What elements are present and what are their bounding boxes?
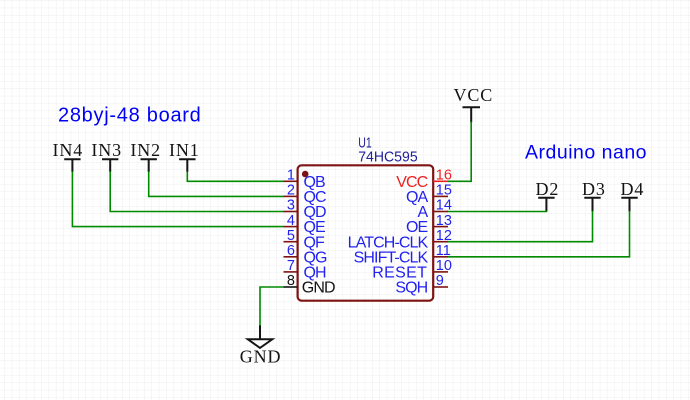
svg-text:2: 2: [287, 183, 295, 199]
svg-text:7: 7: [287, 258, 295, 274]
svg-text:IN1: IN1: [169, 140, 200, 160]
pin 6 QG: [284, 243, 328, 266]
svg-text:GND: GND: [302, 280, 335, 297]
pin 9 SQH: [395, 273, 448, 296]
svg-text:16: 16: [436, 168, 452, 184]
svg-text:9: 9: [436, 273, 444, 289]
wire IN1 to pin 1: [187, 171, 283, 181]
pin 11 SHIFT-CLK: [354, 243, 451, 266]
pin 15 QA: [406, 183, 452, 206]
power VCC: [454, 85, 494, 123]
wire IN3 to pin 3: [110, 171, 283, 211]
wire IN4 to pin 4: [72, 171, 283, 226]
node D3: [582, 179, 606, 212]
pin 4 QE: [284, 213, 326, 236]
svg-text:IN4: IN4: [53, 140, 84, 160]
pin 12 LATCH-CLK: [348, 228, 452, 251]
svg-text:28byj-48 board: 28byj-48 board: [58, 105, 202, 127]
svg-text:D4: D4: [621, 179, 645, 199]
node IN2: [130, 140, 161, 172]
svg-text:11: 11: [436, 243, 451, 259]
svg-text:8: 8: [287, 273, 295, 289]
wire pin 8 to GND: [260, 287, 284, 326]
pin 10 RESET: [372, 258, 452, 281]
svg-text:5: 5: [287, 228, 295, 244]
svg-text:GND: GND: [240, 347, 282, 367]
svg-text:SQH: SQH: [395, 280, 427, 297]
pin 1 QB: [284, 168, 326, 191]
node IN1: [169, 140, 200, 172]
wire D2 to pin 14: [448, 210, 547, 213]
svg-text:15: 15: [436, 183, 452, 199]
svg-text:6: 6: [287, 243, 295, 259]
svg-text:IN2: IN2: [130, 140, 161, 160]
svg-text:12: 12: [436, 228, 452, 244]
svg-text:10: 10: [436, 258, 452, 274]
svg-text:1: 1: [287, 168, 295, 184]
pin 5 QF: [284, 228, 326, 251]
node IN4: [53, 140, 84, 172]
pin 14 A: [418, 198, 452, 221]
pin 1 marker dot: [302, 171, 309, 178]
svg-text:VCC: VCC: [454, 85, 494, 105]
svg-text:D3: D3: [582, 179, 606, 199]
svg-text:D2: D2: [536, 179, 560, 199]
pin 8 GND: [284, 273, 336, 296]
svg-text:Arduino nano: Arduino nano: [525, 142, 647, 164]
wire D3 to pin 12: [448, 211, 593, 242]
pin 3 QD: [284, 198, 327, 221]
svg-text:3: 3: [287, 198, 295, 214]
node IN3: [91, 140, 122, 172]
svg-text:IN3: IN3: [91, 140, 122, 160]
svg-text:4: 4: [287, 213, 295, 229]
ground GND: [240, 325, 282, 367]
wire IN2 to pin 2: [149, 171, 284, 196]
IC U1 74HC595 body: [298, 165, 434, 300]
svg-text:74HC595: 74HC595: [358, 149, 418, 166]
wire VCC to pin 16: [448, 122, 471, 182]
pin 13 OE: [406, 213, 452, 236]
wire D4 to pin 11: [448, 211, 630, 257]
pin 16 VCC: [396, 168, 452, 191]
node D4: [621, 179, 645, 212]
node D2: [536, 179, 560, 212]
svg-text:13: 13: [436, 213, 452, 229]
pin 7 QH: [284, 258, 327, 281]
pin 2 QC: [284, 183, 327, 206]
svg-text:14: 14: [436, 198, 452, 214]
